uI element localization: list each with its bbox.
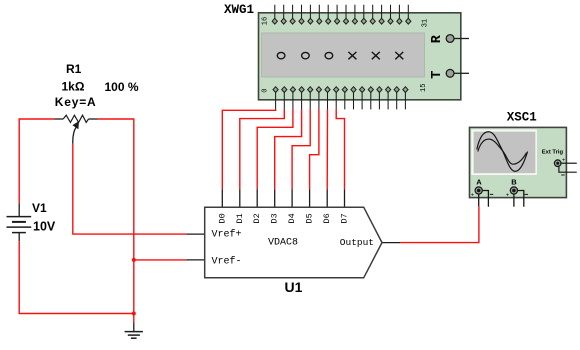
wire D1 net [240, 109, 284, 189]
U1 Vref+ pin stub [186, 233, 204, 235]
display symbol O 1 [277, 52, 285, 58]
R1 right lead stub [89, 118, 98, 120]
wire Vref- branch [134, 259, 187, 261]
R1 resistor zigzag [63, 115, 88, 122]
svg-text:10V: 10V [33, 220, 56, 234]
V1 top terminal stub [18, 203, 20, 217]
svg-text:+: + [506, 193, 509, 199]
wire D7 net [336, 109, 344, 189]
svg-text:31: 31 [421, 19, 429, 27]
T terminal connector [446, 69, 454, 77]
svg-text:D0: D0 [217, 213, 227, 223]
V1 bottom terminal stub [18, 233, 20, 242]
T terminal stub [454, 72, 469, 74]
svg-text:+: + [471, 193, 474, 199]
svg-text:V1: V1 [32, 201, 47, 215]
svg-text:XWG1: XWG1 [224, 3, 254, 17]
V1 plate short 2 [12, 232, 26, 234]
junction ground node [132, 312, 136, 316]
wire R1 wiper to Vref+ [73, 144, 187, 234]
U1 Vref- pin stub [186, 259, 204, 261]
R terminal stub [454, 38, 469, 40]
svg-text:B: B [511, 178, 517, 187]
channel A minus stub [482, 191, 488, 207]
svg-text:16: 16 [262, 17, 270, 25]
svg-text:D3: D3 [270, 213, 280, 223]
R terminal connector [446, 35, 454, 43]
Ext Trig minus stub [559, 166, 577, 172]
wire R1 right down to ground node [98, 119, 134, 314]
channel B connector [510, 187, 517, 194]
wire D5 net [310, 109, 319, 189]
svg-text:D6: D6 [322, 213, 332, 223]
svg-text:R1: R1 [66, 62, 82, 76]
svg-text:+: + [562, 157, 565, 163]
svg-text:D5: D5 [305, 213, 315, 223]
scope trace small [478, 139, 527, 164]
svg-text:Ext Trig: Ext Trig [542, 149, 564, 155]
wire battery top to R1 left [19, 119, 54, 203]
R1 left lead stub [54, 118, 63, 120]
svg-text:A: A [476, 178, 482, 187]
svg-text:100 %: 100 % [105, 80, 139, 94]
U1 pin stubs D0-D7 [222, 189, 344, 207]
svg-text:T: T [430, 71, 445, 79]
V1 plate short 1 [12, 221, 26, 223]
XWG1 body [259, 13, 461, 100]
Ext Trig plus stub [561, 162, 577, 164]
Ext Trig connector [554, 160, 561, 167]
XSC1 screen frame [471, 129, 537, 175]
wire D3 net [275, 109, 302, 189]
XSC1 body [470, 127, 567, 197]
wire battery bottom to ground node [19, 241, 134, 313]
svg-text:Vref+: Vref+ [212, 229, 242, 241]
channel B minus stub [518, 191, 524, 207]
channel A connector [475, 187, 482, 194]
svg-text:15: 15 [420, 84, 428, 92]
XWG1 bottom pin diamonds 0-15 [273, 87, 408, 93]
channel A plus stub [478, 194, 480, 206]
U1 Output pin stub [382, 242, 400, 244]
svg-text:Output: Output [340, 237, 374, 248]
U1 body outline [205, 207, 382, 278]
display symbol O 2 [302, 52, 310, 58]
svg-text:Key=A: Key=A [55, 95, 97, 109]
svg-text:U1: U1 [285, 279, 303, 295]
svg-text:VDAC8: VDAC8 [268, 237, 298, 248]
wire D6 net [326, 109, 328, 189]
display symbol X 3 [395, 52, 403, 59]
svg-text:D4: D4 [287, 213, 297, 223]
XSC1 screen [474, 132, 536, 174]
V1 plate long top [7, 216, 32, 218]
wire D2 net [257, 109, 293, 189]
channel B minus mark [525, 193, 528, 195]
svg-text:1kΩ: 1kΩ [62, 80, 85, 94]
channel A minus mark [490, 193, 493, 195]
XWG1 display area [262, 33, 425, 77]
R1 wiper arrow [73, 127, 77, 144]
channel B plus stub [513, 194, 515, 207]
XWG1 bottom pin stubs [276, 90, 406, 110]
svg-text:D1: D1 [235, 213, 245, 223]
svg-text:0: 0 [261, 89, 269, 93]
XWG1 top pin diamonds 16-31 [272, 18, 411, 24]
wire D4 net [292, 109, 310, 189]
Ext Trig minus mark [561, 174, 564, 176]
display symbol X 2 [372, 52, 380, 59]
wire D0 net [222, 109, 275, 189]
scope trace large [477, 132, 528, 172]
wire U1 output to scope channel A [400, 206, 479, 242]
V1 plate long bottom [7, 226, 32, 228]
junction Vref- node [132, 258, 136, 262]
XWG1 top pin stubs [275, 5, 409, 22]
svg-text:XSC1: XSC1 [507, 110, 537, 124]
svg-text:D2: D2 [252, 213, 262, 223]
svg-text:D7: D7 [340, 213, 350, 223]
wire ground drop [133, 314, 135, 323]
display symbol X 1 [348, 52, 356, 59]
svg-text:R: R [430, 34, 445, 43]
svg-text:Vref-: Vref- [212, 255, 242, 267]
display symbol O 3 [325, 52, 333, 58]
